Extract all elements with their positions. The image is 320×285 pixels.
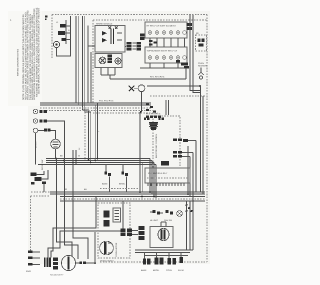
wire x73 down from bus B2 bbox=[73, 165, 88, 260]
svg-text:P5-1 P5-3 P5-5 P5-7: P5-1 P5-3 P5-5 P5-7 bbox=[148, 172, 168, 175]
svg-text:BAKE: BAKE bbox=[141, 269, 147, 272]
bus A right end connector bbox=[144, 100, 169, 120]
svg-text:OVEN CAVITY: OVEN CAVITY bbox=[100, 260, 114, 263]
svg-text:P1-1 P1-3 P1-5: P1-1 P1-3 P1-5 bbox=[146, 113, 161, 116]
dashed border mid vertical lower bbox=[84, 112, 86, 160]
svg-text:BU: BU bbox=[84, 188, 87, 191]
wire L1 vertical pair left bbox=[76, 16, 78, 105]
connector cluster below upper element box bbox=[149, 40, 157, 46]
module electrode bars bbox=[109, 27, 123, 45]
svg-text:BK W R: BK W R bbox=[35, 141, 38, 148]
switch row mid-bottom: hi-limit bbox=[150, 210, 163, 222]
svg-text:W: W bbox=[78, 155, 80, 158]
transformer on control board bbox=[149, 122, 158, 130]
switch row mid-bottom: fan switch bbox=[164, 210, 173, 222]
resistor blob right of element box bbox=[187, 23, 193, 30]
door lock motor bbox=[51, 139, 61, 149]
power cord terminal rings bbox=[26, 251, 40, 274]
dashed console border right bbox=[206, 15, 208, 263]
note number 2 bbox=[10, 19, 12, 22]
cooling fan motor bottom-left bbox=[62, 255, 76, 270]
wire lock motor down bbox=[55, 149, 57, 159]
spark igniter arrow 1 bbox=[102, 31, 107, 35]
svg-text:FAN SW: FAN SW bbox=[164, 219, 172, 222]
wire label vertical GY bbox=[78, 147, 81, 150]
svg-text:FAN MOTOR P7: FAN MOTOR P7 bbox=[50, 274, 63, 277]
svg-text:BROIL: BROIL bbox=[119, 183, 126, 186]
motor terminal squares bbox=[76, 262, 96, 265]
spark module box bbox=[95, 23, 125, 53]
svg-text:RF RR LF LR SURF ELEMENT: RF RR LF LR SURF ELEMENT bbox=[147, 25, 177, 28]
dashed border lower-left horizontal bbox=[31, 195, 51, 197]
control board dashed box bbox=[153, 116, 180, 168]
latch switch cluster bbox=[31, 170, 49, 185]
notes text block (rotated service notes) bbox=[22, 7, 40, 100]
bake relay bbox=[102, 168, 111, 186]
connector blob left of element box bbox=[140, 34, 145, 40]
wire from fuse down bbox=[57, 48, 71, 56]
wire x73 vertical bbox=[72, 150, 74, 170]
wire label P4 bbox=[99, 100, 114, 103]
wire oven box to right cluster bbox=[132, 231, 138, 235]
svg-text:DOOR SW: DOOR SW bbox=[41, 160, 44, 170]
control board connector top bbox=[146, 113, 161, 118]
bus B1 horizontal run bbox=[38, 159, 156, 165]
wire TB3 down to bus bbox=[35, 133, 37, 165]
junction dots bus B1 bbox=[55, 158, 98, 164]
wire TB2 right and down bbox=[47, 121, 65, 159]
control board bottom blob bbox=[161, 161, 169, 166]
terminal TB3 bbox=[33, 128, 37, 132]
wire TB3 to lock motor bbox=[38, 131, 56, 140]
svg-text:SENSOR: SENSOR bbox=[198, 64, 207, 67]
connector P4 stack bbox=[133, 42, 142, 50]
svg-text:BROIL: BROIL bbox=[153, 269, 160, 272]
oven light circle bbox=[134, 85, 145, 92]
wire spark module to bus bbox=[88, 26, 95, 104]
dashed console border top inner bbox=[93, 19, 207, 21]
connector stack right of oven box bbox=[139, 226, 145, 240]
relay cluster top right bbox=[196, 32, 207, 51]
wire x56 long vertical bbox=[57, 159, 73, 257]
wire right bus vertical pair bbox=[190, 15, 193, 85]
junction cluster mid-bottom bbox=[186, 204, 193, 212]
control board connector right lower bbox=[173, 151, 193, 158]
label door switch bbox=[41, 160, 44, 170]
svg-text:SEE MINI MANUAL FOR SCHEMATIC: SEE MINI MANUAL FOR SCHEMATIC AND THE ST… bbox=[38, 7, 41, 94]
dashed console border bottom bbox=[100, 261, 207, 263]
terminal TB2 bbox=[33, 119, 37, 123]
convection motor in oven box bbox=[100, 241, 114, 255]
oven indicator light X bbox=[129, 86, 134, 91]
svg-text:CONV MOTOR: CONV MOTOR bbox=[115, 242, 118, 257]
dark cluster below lower element box bbox=[176, 60, 189, 69]
small side note bbox=[17, 48, 20, 76]
wires control board right to bus verticals bbox=[188, 141, 196, 202]
dashed console border top bbox=[52, 14, 207, 16]
svg-text:WIRING DIAGRAM NOTES: WIRING DIAGRAM NOTES bbox=[17, 48, 20, 76]
connector pin bars cluster bbox=[44, 258, 51, 268]
wires element boxes to lower run bbox=[140, 63, 185, 68]
svg-text:TOP BURNER SW RF RR LF LR: TOP BURNER SW RF RR LF LR bbox=[147, 50, 178, 53]
broil relay bbox=[119, 168, 128, 186]
oven component outline bbox=[113, 208, 121, 222]
terminal TB2 connector bbox=[40, 119, 47, 122]
svg-text:P2-1 P2-3 P2-5: P2-1 P2-3 P2-5 bbox=[150, 76, 165, 79]
dashed border mid vertical bbox=[92, 20, 94, 103]
lower igniter switch box bbox=[95, 54, 122, 68]
terminal TB1 bbox=[33, 109, 37, 113]
wire stubs box to P2 line bbox=[101, 68, 115, 80]
bus B2 horizontal run bbox=[31, 192, 205, 201]
indicator circle mid-bottom bbox=[177, 211, 183, 217]
wires verticals above bottom cluster bbox=[187, 201, 194, 250]
oven sensor component right bbox=[198, 62, 207, 79]
bottom components row: component 3 bbox=[166, 258, 176, 272]
wire element return bends right bbox=[190, 80, 201, 93]
surface burner symbols upper row bbox=[148, 31, 186, 35]
wire label bus B1 bbox=[60, 155, 80, 158]
wire y86 to right bbox=[147, 85, 205, 96]
svg-text:ELEM: ELEM bbox=[178, 269, 184, 272]
terminal TB3 connector bbox=[44, 129, 50, 132]
bottom components row: component 2 bbox=[153, 258, 164, 273]
connector P1 blob stack bbox=[53, 258, 58, 270]
wire L2 vertical pair bbox=[83, 16, 85, 112]
wire bus A corner down bbox=[95, 103, 97, 160]
surface element box lower bbox=[145, 47, 187, 63]
oven box bottom label bbox=[100, 260, 114, 263]
control board connector right upper bbox=[173, 139, 196, 143]
surface element box upper bbox=[145, 22, 187, 38]
dashed border lower-left vertical bbox=[30, 196, 32, 252]
svg-text:P4-1 P4-2 P4-3: P4-1 P4-2 P4-3 bbox=[99, 100, 114, 103]
wire x140 vertical mid bbox=[140, 112, 142, 192]
door switch stack in oven box bbox=[104, 211, 110, 227]
wire corner bends to bus A bbox=[40, 103, 91, 162]
bottom row riser wires bbox=[145, 253, 182, 259]
surface burner symbols lower row bbox=[148, 56, 186, 60]
dashed shelf under relays bbox=[100, 188, 138, 190]
junction dots bus B2 bbox=[139, 191, 194, 202]
power supply cluster top-left bbox=[56, 16, 71, 50]
svg-text:CONV: CONV bbox=[166, 269, 173, 272]
bottom components row: component 1 bbox=[141, 259, 150, 273]
wire motor top stubs bbox=[161, 222, 166, 227]
wire bake broil stubs to bus B1 bbox=[106, 165, 127, 193]
wire label bus B2 bbox=[64, 188, 87, 191]
fuse circle top-left bbox=[53, 41, 59, 47]
igniter switch circle B bbox=[115, 58, 121, 64]
control board lower solid box bbox=[145, 168, 190, 186]
wire bottom-left risers bbox=[50, 232, 95, 277]
svg-text:HI-LIMIT: HI-LIMIT bbox=[150, 219, 159, 222]
wire label vertical Y bbox=[98, 130, 101, 132]
conv motor label bbox=[115, 242, 118, 257]
wire bundle bend bottom-left bbox=[48, 197, 123, 258]
spark igniter arrow 2 bbox=[102, 38, 107, 42]
svg-text:ELECTRONIC CONTROL: ELECTRONIC CONTROL bbox=[155, 133, 158, 158]
igniter connector stack bbox=[108, 55, 113, 64]
wire run y78 bbox=[110, 68, 186, 79]
wire right verticals down bbox=[201, 86, 204, 194]
bus A horizontal run right bbox=[40, 103, 158, 113]
bottom horizontal runs bbox=[135, 250, 193, 256]
control board left pin text bbox=[155, 133, 158, 158]
svg-text:BAKE: BAKE bbox=[102, 183, 108, 186]
dashed console border left upper bbox=[51, 15, 53, 59]
terminal color code text bbox=[35, 141, 38, 148]
oven connector stacks bbox=[121, 229, 133, 237]
wire x64 long vertical bbox=[65, 159, 79, 260]
svg-text:PWR: PWR bbox=[26, 270, 31, 273]
wire latch to bus bbox=[43, 184, 45, 192]
wire oven light down bbox=[140, 92, 142, 113]
bus B1 to B2 bends right side bbox=[150, 159, 156, 199]
wires between element boxes bbox=[150, 38, 185, 47]
connector P3 stack bbox=[125, 42, 132, 50]
svg-text:SPARK MODULE: SPARK MODULE bbox=[96, 23, 113, 26]
wire x76 vertical lower bbox=[75, 150, 77, 165]
bottom components row: component 4 bbox=[178, 257, 184, 272]
terminal TB1 connector bbox=[40, 110, 47, 113]
oven cavity dashed box bbox=[98, 203, 130, 258]
bottom fan motor right bbox=[150, 227, 173, 248]
igniter switch circle A bbox=[99, 57, 106, 64]
corner label mark bbox=[45, 16, 47, 21]
